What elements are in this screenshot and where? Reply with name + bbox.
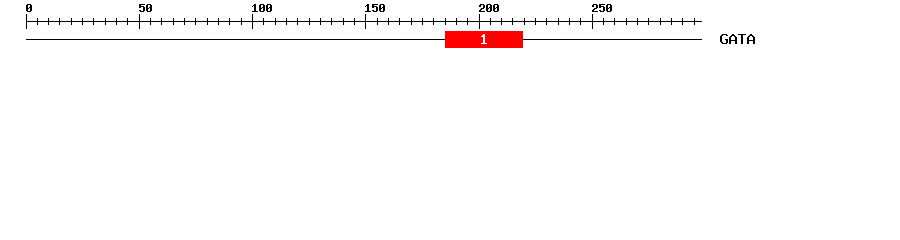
major tick 200 (x=479) <box>479 14 480 29</box>
track name label "GATA" <box>720 34 755 44</box>
major tick 250 (x=592) <box>592 14 593 29</box>
major tick 0 (x=26) <box>26 14 27 29</box>
background <box>0 0 900 58</box>
ruler label "0" <box>26 4 32 12</box>
major tick 100 (x=252) <box>252 14 253 29</box>
ruler label "100" <box>252 4 272 12</box>
feature label "1" <box>481 34 487 44</box>
major tick 50 (x=139) <box>139 14 140 29</box>
minor ticks <box>37 18 695 25</box>
ruler label "150" <box>365 4 385 12</box>
major tick 150 (x=365) <box>365 14 366 29</box>
ruler label "250" <box>592 4 612 12</box>
feature box 1 (site 185-219) <box>445 31 523 48</box>
sequence track line wire <box>26 39 702 40</box>
ruler label "50" <box>139 4 152 12</box>
ruler baseline wire <box>26 21 702 22</box>
ruler label "200" <box>479 4 499 12</box>
